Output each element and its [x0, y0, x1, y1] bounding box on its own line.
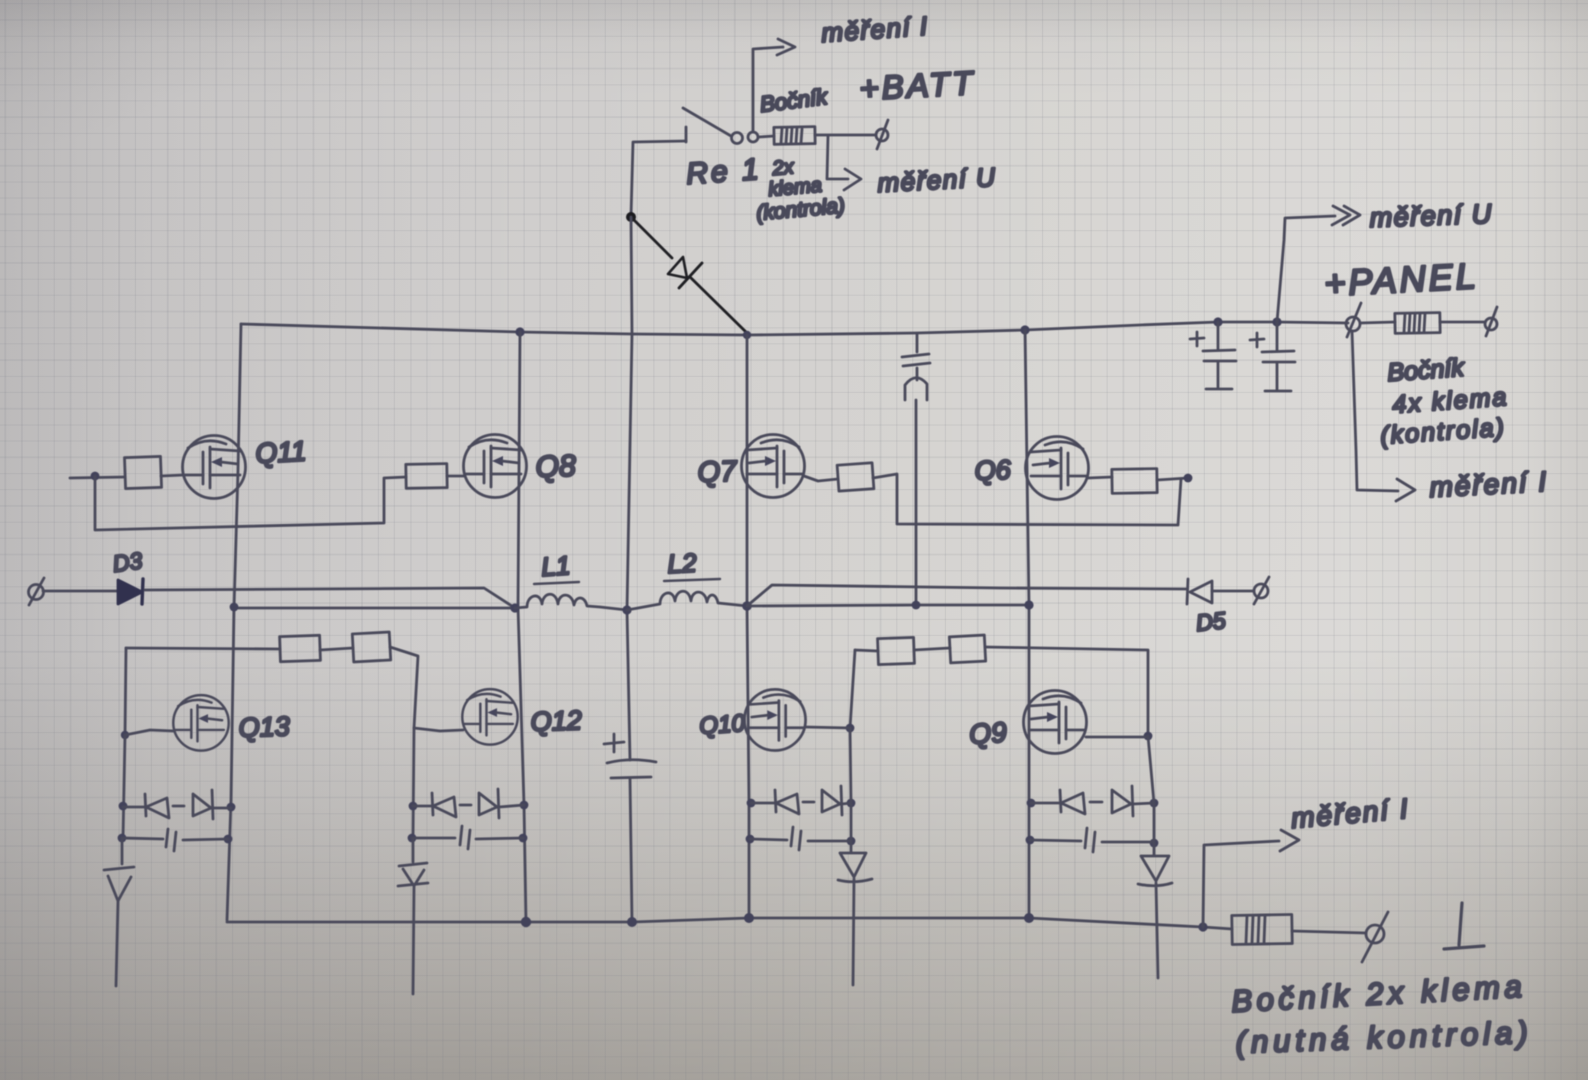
node junction dot gate feed	[91, 472, 100, 481]
zener ZQ13	[104, 838, 134, 986]
wire R9 to Q9 gate column	[985, 647, 1148, 736]
terminal panel out circle	[1485, 318, 1497, 330]
wire vertical bus x240 rail to mid	[234, 324, 241, 608]
node junction dot mid x747	[742, 601, 752, 611]
node junction black dot on x631 wire	[626, 212, 636, 222]
wire Q10 gate lead	[805, 727, 850, 728]
node junction dot bottom x632	[627, 917, 637, 927]
diode D3 triangle (bold ink)	[118, 580, 142, 604]
transistor Q6	[1026, 437, 1089, 500]
svg-text:měření I: měření I	[1290, 793, 1411, 834]
node dot Q9 snubber a	[1027, 799, 1036, 808]
svg-text:Q11: Q11	[255, 435, 307, 469]
terminal +PANEL slash	[1347, 303, 1361, 337]
terminal bottom slash	[1362, 912, 1388, 962]
svg-text:Bočník: Bočník	[759, 84, 830, 117]
wire Q6 gate to R6	[1088, 477, 1112, 478]
svg-text:L2: L2	[667, 547, 698, 579]
resistor R13	[280, 635, 321, 661]
arrow head merani U right	[1332, 206, 1360, 225]
svg-text:Q6: Q6	[974, 455, 1012, 486]
wire vertical bus x630 capacitor to bottom rail	[630, 779, 632, 922]
node dot Q12 snubber a	[409, 802, 418, 811]
wire mid rail lower right segment	[747, 605, 1029, 606]
wire tap to merani I (top)	[753, 47, 783, 131]
wire mid rail lower left segment	[234, 607, 515, 610]
zener ZQ9	[1138, 843, 1172, 978]
wire tap down to merani I right	[1352, 331, 1398, 491]
diode D3 cathode bar	[142, 579, 143, 604]
diode pair DQ12	[413, 789, 524, 818]
wire terminal to D3	[43, 590, 118, 593]
terminal panel out slash	[1486, 307, 1497, 336]
shunt bottom hatching	[1246, 916, 1265, 943]
transistor Q7	[742, 435, 805, 498]
wire Q10 corner to R10	[855, 650, 878, 651]
wire Q7 gate to R7	[804, 476, 838, 481]
relay Re1 contact circle left	[732, 133, 743, 144]
svg-text:měření U: měření U	[877, 162, 997, 198]
node dot Q13 snubber d	[224, 835, 233, 844]
wire Q12 gate column down	[413, 728, 414, 838]
resistor R7 gate Q7	[837, 463, 874, 491]
shunt resistor Bocnik 2x klema	[774, 127, 815, 145]
transistor Q12	[462, 689, 517, 744]
svg-text:L1: L1	[540, 550, 571, 582]
wire shunt to bottom terminal	[1292, 931, 1366, 933]
svg-text:(kontrola): (kontrola)	[1379, 413, 1506, 450]
relay Re1 movable arm	[683, 108, 731, 136]
zener ZQ10	[838, 841, 872, 985]
node junction dot bottom x1029	[1024, 913, 1034, 923]
node dot Q12 snubber b	[408, 834, 417, 843]
node dot Q13 snubber a	[119, 802, 128, 811]
wire resistor chain left row2	[126, 648, 280, 649]
node junction dot top rail x1218	[1213, 317, 1222, 326]
svg-text:Q13: Q13	[238, 711, 290, 743]
zener ZQ12	[398, 838, 428, 994]
node dot Q13 snubber b	[118, 834, 127, 843]
wire mid rail upper branch to D5	[747, 585, 1186, 606]
label L1 underline	[534, 582, 579, 584]
wire terminal to shunt right	[1360, 322, 1395, 323]
svg-text:Bočník 2x klema: Bočník 2x klema	[1231, 969, 1527, 1019]
arrow head merani U	[844, 169, 861, 190]
svg-text:Q12: Q12	[530, 705, 582, 737]
wire shunt to panel out terminal	[1440, 321, 1485, 324]
svg-text:Re 1: Re 1	[685, 153, 762, 191]
node dot Q9 snubber d	[1150, 839, 1159, 848]
capacitor C4 plus sign	[604, 734, 624, 752]
svg-text:Q10: Q10	[699, 710, 747, 740]
capacitor C4 top plate	[607, 760, 656, 763]
node dot Q12 snubber c	[520, 801, 529, 810]
resistor R11 gate Q11	[124, 456, 161, 488]
wire Q9 gate lead	[1086, 736, 1146, 739]
capacitor C1 plus sign	[1190, 332, 1204, 346]
node dot Q10 snubber d	[847, 837, 856, 846]
capacitor CQ12	[412, 826, 523, 849]
resistor R12	[352, 632, 390, 662]
diode D6 cup symbol below C3	[905, 378, 927, 400]
wire Q9 gate column down	[1148, 736, 1154, 843]
wire Q10 gate column corner	[850, 650, 855, 728]
shunt resistor Bocnik bottom	[1232, 914, 1292, 944]
resistor R6 gate Q6	[1112, 469, 1157, 494]
node junction dot mid x1029	[1024, 600, 1033, 609]
wire between R10 and R9	[914, 648, 950, 650]
wire C3 chain down to mid rail	[916, 368, 917, 605]
inductor L1	[515, 594, 627, 610]
capacitor C3 top plates at x917	[902, 334, 930, 366]
terminal +PANEL circle	[1346, 317, 1360, 331]
wire Q13 gate column top corner	[125, 648, 126, 735]
node junction dot top rail x1277	[1272, 317, 1281, 326]
capacitor CQ10	[750, 827, 851, 850]
node dot Q10 snubber a	[747, 799, 756, 808]
wire R11 to Q11 gate	[161, 475, 183, 476]
capacitor C2 electrolytic	[1262, 322, 1295, 391]
transistor Q8	[464, 435, 527, 498]
wire relay feed from node at x631	[631, 141, 686, 216]
wire vertical bus x240 mid to bottom rail	[227, 608, 234, 920]
shunt right hatching	[1404, 314, 1425, 332]
node junction dot Q13 gate	[121, 731, 129, 739]
node junction dot mid x515	[510, 603, 519, 612]
relay Re1 fixed contact	[685, 127, 688, 142]
wire loop R7 to Q6 gate node	[873, 474, 1181, 525]
transistor Q9	[1024, 691, 1087, 754]
transistor Q13	[173, 695, 228, 750]
wire loop Q11 gate node to Q8 gate	[95, 476, 406, 530]
relay Re1 contact circle right	[748, 132, 758, 142]
wire contact to shunt	[759, 136, 774, 137]
svg-text:Q7: Q7	[697, 456, 739, 489]
shunt resistor Bocnik 4x klema	[1395, 313, 1440, 334]
terminal bottom circle	[1366, 925, 1384, 943]
node dot Q9 snubber b	[1026, 836, 1035, 845]
wire vertical bus x630 rail to capacitor	[627, 217, 632, 760]
node junction dot top rail x520	[515, 327, 524, 336]
svg-text:Q9: Q9	[968, 716, 1007, 750]
transistor Q10	[744, 689, 805, 750]
svg-text:Bočník: Bočník	[1386, 354, 1466, 387]
svg-text:měření I: měření I	[1429, 466, 1549, 503]
wire tap up to merani U right	[1277, 216, 1335, 322]
wire R12 to Q12 gate column	[390, 647, 418, 728]
terminal mid-left slash	[29, 578, 44, 605]
wire Q13 gate column down	[123, 735, 125, 838]
capacitor C1 electrolytic	[1203, 322, 1236, 389]
wire D3 to mid junction	[145, 588, 515, 608]
wire bottom rail	[227, 918, 1232, 929]
resistor R8 gate Q8	[406, 464, 447, 489]
svg-text:D3: D3	[111, 547, 144, 577]
diode D4 diagonal wire (black pen)	[631, 217, 746, 332]
diode D5 triangle	[1190, 581, 1212, 603]
node junction dot bottom x749	[744, 913, 754, 923]
ground symbol	[1444, 903, 1484, 949]
arrow head merani I right	[1396, 479, 1415, 501]
wire R6 to node	[1157, 478, 1188, 480]
node junction dot bottom x526	[521, 917, 531, 927]
arrow head merani I top	[777, 39, 795, 55]
wire top rail	[241, 322, 1348, 335]
node junction dot top rail x747	[743, 331, 751, 339]
wire tap to merani U	[827, 136, 848, 179]
node junction dot bottom x1203	[1198, 922, 1207, 931]
diode pair DQ9	[1031, 786, 1154, 816]
node junction dot Q9 gate	[1144, 732, 1153, 741]
capacitor C2 plus sign	[1250, 333, 1264, 347]
diode D5 cathode bar	[1187, 579, 1188, 604]
node junction dot top rail x1025	[1020, 325, 1029, 334]
node dot Q10 snubber c	[847, 799, 856, 808]
node junction dot mid x234	[230, 603, 239, 612]
capacitor CQ13	[122, 829, 228, 851]
node dot Q12 snubber d	[519, 834, 528, 843]
diode pair DQ10	[751, 786, 851, 815]
node junction dot Q6 gate	[1184, 474, 1193, 483]
node junction dot Q10 gate	[846, 724, 855, 733]
transistor Q11	[183, 436, 246, 499]
wire D5 to terminal	[1212, 590, 1253, 593]
resistor R10	[878, 637, 915, 664]
wire vertical bus x520 full height	[518, 332, 526, 922]
terminal mid-right slash	[1254, 577, 1269, 604]
wire vertical bus x1029 full height	[1025, 330, 1029, 918]
wire Q13 gate lead	[125, 730, 174, 735]
capacitor C4 bottom plate	[611, 777, 651, 778]
terminal mid-right circle	[1254, 584, 1268, 598]
inductor L2	[627, 591, 747, 610]
svg-text:měření I: měření I	[820, 11, 929, 48]
node junction dot mid x627	[622, 605, 631, 614]
wire vertical bus x747 full height	[747, 335, 749, 918]
wire Q12 gate lead	[414, 728, 463, 731]
svg-text:+PANEL: +PANEL	[1323, 255, 1479, 304]
node dot Q9 snubber c	[1150, 799, 1159, 808]
svg-text:+BATT: +BATT	[858, 64, 976, 107]
wire shunt to +BATT terminal	[815, 134, 875, 137]
diode D4 cathode bar	[679, 263, 702, 288]
wire gate feed left edge	[70, 477, 125, 478]
node dot Q10 snubber b	[746, 835, 755, 844]
node junction dot mid x916	[912, 601, 921, 610]
wire between R13 and R12	[320, 648, 353, 650]
resistor R9	[949, 635, 985, 663]
wire R8 to Q8 gate	[447, 475, 464, 478]
capacitor CQ9	[1030, 828, 1154, 852]
shunt hatching	[781, 128, 802, 143]
wire Q10 gate column down	[850, 728, 851, 841]
svg-text:D5: D5	[1195, 607, 1227, 636]
svg-text:Q8: Q8	[535, 450, 576, 484]
svg-text:měření U: měření U	[1369, 199, 1493, 233]
arrow head merani I bottom	[1280, 830, 1299, 851]
terminal mid-left circle	[29, 585, 44, 600]
terminal +BATT slash	[877, 120, 888, 149]
svg-text:(nutná kontrola): (nutná kontrola)	[1235, 1015, 1533, 1060]
node dot Q13 snubber c	[227, 803, 236, 812]
diode D4 triangle	[668, 257, 687, 278]
terminal +BATT circle	[876, 129, 888, 141]
diode pair DQ13	[123, 790, 231, 819]
wire tap to merani I bottom	[1203, 841, 1279, 927]
label L2 underline	[664, 579, 720, 581]
